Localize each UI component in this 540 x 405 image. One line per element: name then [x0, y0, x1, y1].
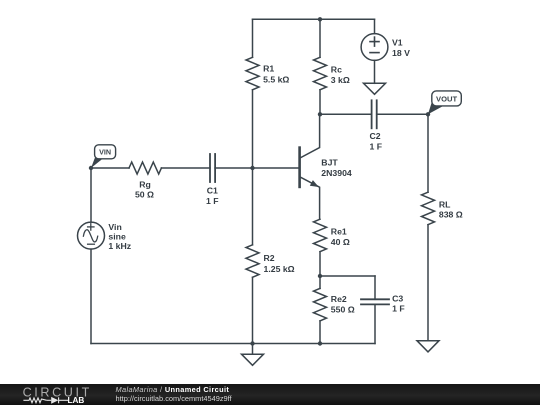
svg-text:1 F: 1 F — [206, 196, 219, 206]
svg-text:C2: C2 — [370, 131, 381, 141]
wire R1 branch top lead — [252, 19, 254, 57]
wire emitter node to Re2 — [319, 276, 321, 288]
wire bottom rail — [91, 343, 375, 345]
node collector/C2 — [318, 112, 322, 116]
resistor R2 — [246, 245, 259, 277]
svg-text:VOUT: VOUT — [436, 94, 457, 103]
wire C2 to VOUT node — [377, 113, 428, 115]
svg-text:sine: sine — [108, 231, 126, 241]
resistor Rg — [129, 162, 161, 174]
source Vin sine — [78, 222, 105, 249]
svg-text:C1: C1 — [207, 186, 218, 196]
svg-text:Re2: Re2 — [331, 294, 347, 304]
flag VOUT — [432, 91, 462, 106]
svg-text:Rc: Rc — [331, 64, 342, 74]
resistor R1 — [246, 57, 259, 90]
flag pointer VOUT — [428, 101, 444, 115]
wire Rc branch top lead — [319, 19, 321, 57]
transistor Q1 emitter arrow — [310, 180, 319, 187]
wire C3 top lead — [374, 276, 376, 299]
transistor Q1 BJT base bar — [298, 148, 301, 187]
svg-text:C3: C3 — [392, 293, 403, 303]
wire RL top lead — [427, 114, 429, 192]
wire base node to R2 — [252, 168, 254, 245]
wire Re1 to emitter node — [319, 252, 321, 276]
svg-text:2N3904: 2N3904 — [321, 168, 352, 178]
wire collector diagonal — [301, 114, 320, 157]
wire VIN node down to Vin source — [90, 168, 92, 222]
svg-text:Rg: Rg — [139, 179, 151, 189]
wire collector node to C2 — [320, 113, 372, 115]
wire R1 to base node — [252, 90, 254, 168]
svg-text:1 F: 1 F — [392, 304, 405, 314]
node bottom rail Re2 — [318, 341, 322, 345]
svg-text:5.5 kΩ: 5.5 kΩ — [263, 75, 289, 85]
resistor Re2 — [314, 288, 327, 321]
ground (below V1) — [364, 83, 386, 94]
CircuitLab logo — [0, 384, 115, 405]
svg-text:VIN: VIN — [99, 148, 111, 157]
capacitor C2 — [371, 100, 373, 128]
svg-text:1.25 kΩ: 1.25 kΩ — [264, 264, 295, 274]
wire R2 to bottom rail — [252, 277, 254, 343]
wire C3 bottom lead — [374, 304, 376, 343]
wire top rail — [253, 18, 375, 20]
capacitor C1 — [209, 154, 211, 182]
flag pointer VIN — [91, 158, 102, 168]
footer bar — [0, 384, 540, 405]
wire Re2 to bottom rail — [319, 321, 321, 344]
wire base — [253, 167, 299, 169]
svg-text:LAB: LAB — [68, 396, 85, 405]
node bottom rail ground — [250, 341, 254, 345]
node junction top rail/Rc — [318, 17, 322, 21]
node base/R1/R2 — [250, 166, 254, 170]
svg-text:1 kHz: 1 kHz — [108, 241, 131, 251]
wire C1 to base node — [215, 167, 252, 169]
node VOUT — [426, 112, 430, 116]
wire Vin source to bottom rail — [90, 249, 92, 343]
ground (bottom rail) — [252, 344, 254, 355]
svg-text:838 Ω: 838 Ω — [439, 209, 463, 219]
node VIN — [89, 166, 93, 170]
svg-text:R1: R1 — [263, 64, 274, 74]
wire VIN node to Rg — [91, 167, 129, 169]
resistor Re1 — [314, 219, 327, 252]
svg-text:V1: V1 — [392, 38, 403, 48]
wire RL to ground — [427, 225, 429, 341]
ground (below RL) — [417, 341, 439, 352]
svg-text:RL: RL — [439, 199, 451, 209]
node emitter Re1/Re2/C3 — [318, 274, 322, 278]
svg-text:Re1: Re1 — [331, 227, 347, 237]
wire Rc to collector node — [319, 90, 321, 115]
resistor Rc — [314, 57, 327, 90]
wire V1 top lead — [374, 19, 376, 33]
flag VIN — [95, 145, 116, 159]
wire Rg to C1 — [161, 167, 210, 169]
svg-text:550 Ω: 550 Ω — [331, 304, 355, 314]
svg-text:R2: R2 — [264, 253, 275, 263]
wire V1 bottom lead — [374, 60, 376, 83]
resistor RL — [422, 192, 435, 225]
svg-text:18 V: 18 V — [392, 48, 410, 58]
wire emitter node to C3 — [320, 275, 375, 277]
svg-text:3 kΩ: 3 kΩ — [331, 75, 350, 85]
wire emitter diagonal — [301, 177, 320, 219]
svg-text:40 Ω: 40 Ω — [331, 237, 350, 247]
svg-text:50 Ω: 50 Ω — [135, 190, 154, 200]
svg-text:BJT: BJT — [321, 158, 338, 168]
voltage source V1 — [361, 34, 388, 61]
capacitor C3 — [361, 298, 389, 300]
svg-text:1 F: 1 F — [370, 142, 383, 152]
